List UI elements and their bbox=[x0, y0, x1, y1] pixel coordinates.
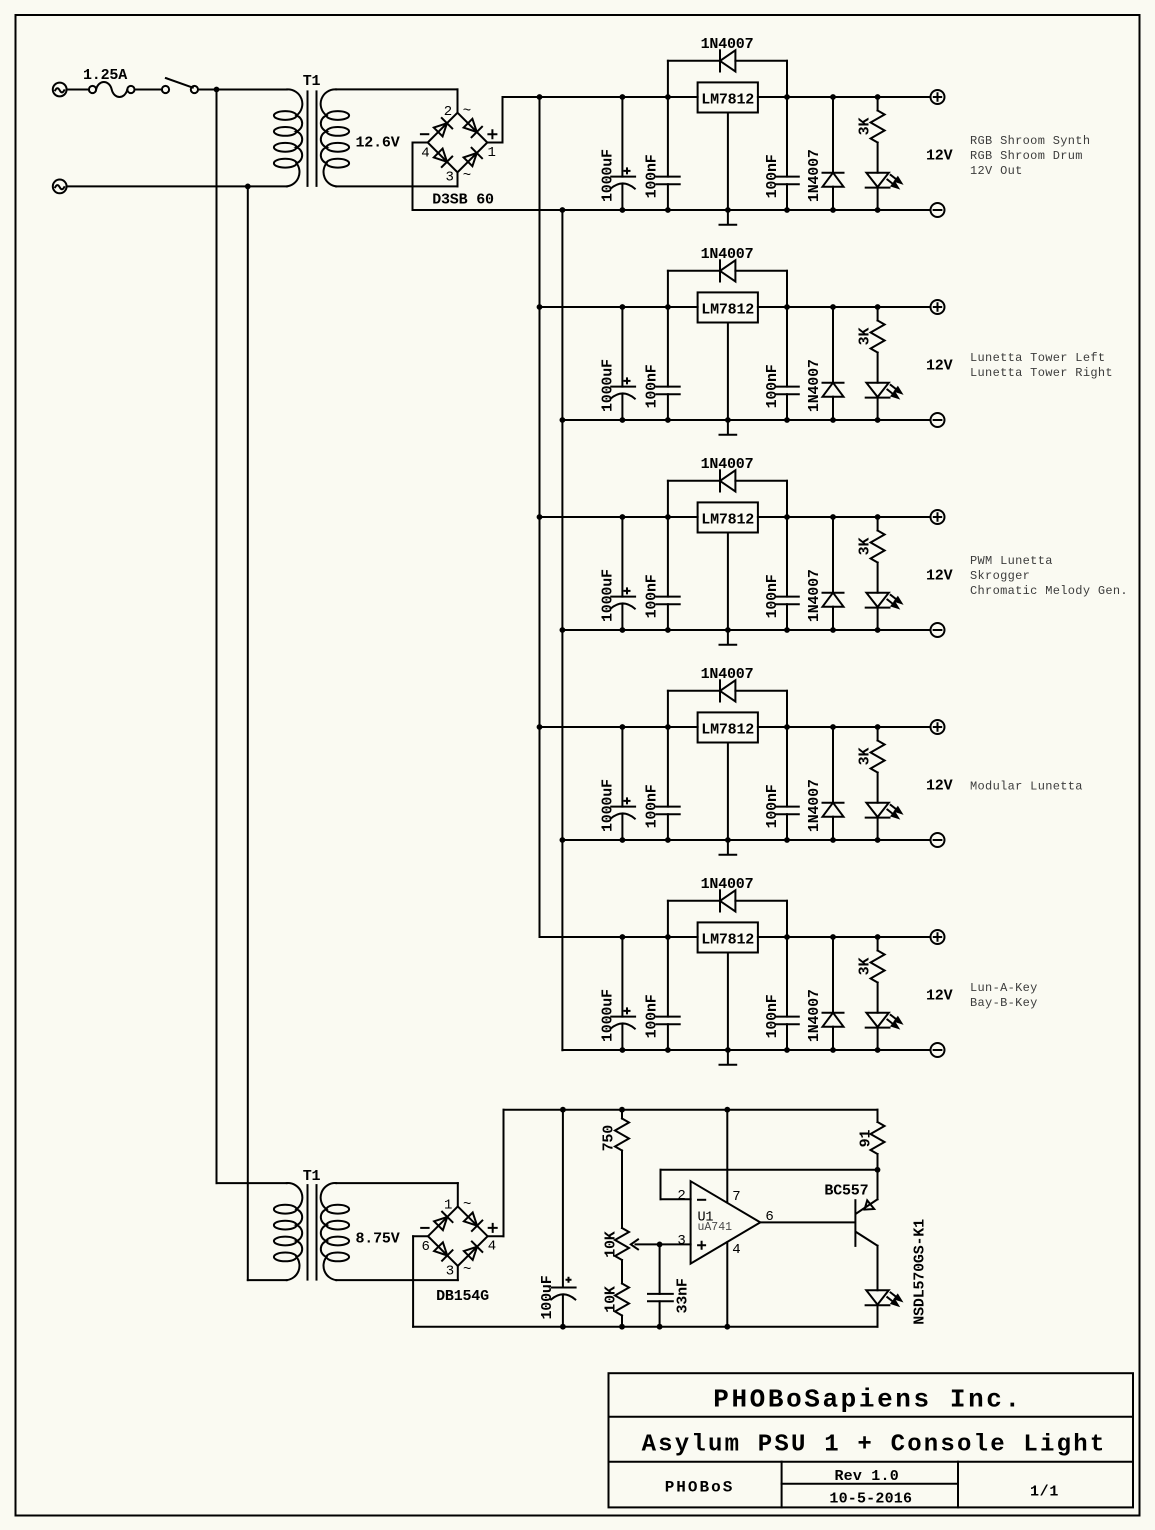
svg-text:NSDL570GS-K1: NSDL570GS-K1 bbox=[911, 1219, 928, 1325]
svg-text:Lunetta Tower Left: Lunetta Tower Left bbox=[970, 351, 1105, 365]
regulator LM7812 (block 5) bbox=[698, 922, 758, 952]
node regulator ground (block 1) bbox=[725, 207, 731, 213]
svg-text:1: 1 bbox=[487, 145, 495, 161]
svg-text:750: 750 bbox=[601, 1125, 618, 1152]
wire +12V rail (block 3) bbox=[540, 516, 698, 518]
svg-text:12V: 12V bbox=[926, 568, 953, 585]
LED indicator (block 3) bbox=[866, 593, 902, 630]
node 100nF-out top (block 4) bbox=[784, 724, 790, 730]
node 100nF-in top (block 2) bbox=[665, 304, 671, 310]
wire +12V rail right (block 2) bbox=[758, 306, 931, 308]
node: neutral feed junction bbox=[245, 184, 251, 190]
svg-text:1N4007: 1N4007 bbox=[701, 876, 754, 893]
svg-text:D3SB 60: D3SB 60 bbox=[432, 191, 494, 208]
wire +12V rail (block 4) bbox=[540, 726, 698, 728]
diode 1N4007 shunt (block 3) bbox=[823, 517, 844, 630]
output description labels (block 4) bbox=[970, 780, 1083, 794]
svg-text:LM7812: LM7812 bbox=[701, 91, 754, 108]
node 3K top (block 4) bbox=[875, 724, 881, 730]
ground symbol (block 2) bbox=[720, 323, 737, 435]
resistor 3K (block 5) bbox=[871, 937, 885, 1013]
output description labels (block 3) bbox=[970, 554, 1128, 598]
node LED bottom (block 4) bbox=[875, 837, 881, 843]
node 100nF-out bottom (block 1) bbox=[784, 207, 790, 213]
svg-text:~: ~ bbox=[463, 1262, 471, 1278]
node shunt diode top (block 5) bbox=[830, 934, 836, 940]
terminal + output (block 4) bbox=[931, 720, 945, 734]
diode 1N4007 bypass over regulator (block 2) bbox=[668, 260, 787, 307]
svg-text:3K: 3K bbox=[856, 748, 873, 766]
wire +12V rail right (block 1) bbox=[758, 96, 931, 98]
resistor 91 bbox=[871, 1110, 885, 1170]
svg-text:100nF: 100nF bbox=[644, 784, 661, 828]
transformer T1 core bbox=[308, 1185, 317, 1280]
diode 1N4007 bypass over regulator (block 5) bbox=[668, 890, 787, 937]
node 1000uF top (block 3) bbox=[620, 514, 626, 520]
svg-text:RGB Shroom Drum: RGB Shroom Drum bbox=[970, 149, 1083, 163]
node 100nF-out top (block 1) bbox=[784, 94, 790, 100]
node 1000uF bottom (block 4) bbox=[620, 837, 626, 843]
node 3K top (block 5) bbox=[875, 934, 881, 940]
ground symbol (block 3) bbox=[720, 533, 737, 645]
node shunt diode top (block 3) bbox=[830, 514, 836, 520]
node 100nF-in bottom (block 1) bbox=[665, 207, 671, 213]
node 100nF-in top (block 5) bbox=[665, 934, 671, 940]
wire inverting input bbox=[661, 1198, 691, 1200]
svg-text:T1: T1 bbox=[303, 73, 321, 90]
bridge rectifier DB154G bbox=[421, 1197, 497, 1279]
svg-text:3K: 3K bbox=[856, 328, 873, 346]
bridge rectifier D3SB 60 bbox=[421, 103, 497, 185]
node 100uF bottom bbox=[560, 1324, 566, 1330]
node 100nF-in top (block 1) bbox=[665, 94, 671, 100]
svg-text:1N4007: 1N4007 bbox=[806, 779, 823, 832]
node: live feed junction bbox=[214, 87, 220, 93]
svg-text:10K: 10K bbox=[603, 1231, 620, 1258]
diode 1N4007 shunt (block 1) bbox=[823, 97, 844, 210]
node 1000uF top (block 2) bbox=[620, 304, 626, 310]
wire +12V rail (block 1) bbox=[503, 96, 698, 98]
transformer T1 secondary winding bbox=[321, 1183, 349, 1280]
AC source terminal bottom bbox=[53, 180, 67, 194]
node 100nF-out bottom (block 2) bbox=[784, 417, 790, 423]
node 1000uF bottom (block 5) bbox=[620, 1047, 626, 1053]
node shunt diode bottom (block 4) bbox=[830, 837, 836, 843]
svg-text:3: 3 bbox=[445, 170, 453, 186]
switch SW1 bbox=[162, 78, 198, 93]
wire bridge - down to console return rail bbox=[413, 1236, 428, 1327]
svg-text:3: 3 bbox=[446, 1263, 454, 1279]
node wiper/33nF bbox=[657, 1242, 663, 1248]
LED indicator (block 5) bbox=[866, 1013, 902, 1050]
terminal - output (block 4) bbox=[931, 833, 945, 847]
node feedback/emitter/91 bbox=[875, 1167, 881, 1173]
node shunt diode bottom (block 2) bbox=[830, 417, 836, 423]
wire +12V rail (block 5) bbox=[540, 936, 698, 938]
wire 0V return rail (block 5) bbox=[562, 1049, 930, 1051]
op-amp U1 uA741 bbox=[691, 1181, 761, 1263]
svg-text:4: 4 bbox=[421, 145, 429, 161]
wire op-amp V+ pin 7 bbox=[726, 1110, 728, 1203]
svg-text:Skrogger: Skrogger bbox=[970, 569, 1030, 583]
svg-text:7: 7 bbox=[732, 1189, 740, 1205]
capacitor 1000uF (block 4) bbox=[611, 727, 636, 840]
capacitor 100nF input (block 5) bbox=[656, 937, 679, 1050]
ground symbol (block 5) bbox=[720, 953, 737, 1065]
wire bridge + up to console rail bbox=[488, 1110, 504, 1237]
transistor BC557 bbox=[855, 1170, 877, 1291]
wire feedback loop bbox=[661, 1170, 878, 1199]
node +feed (block 2) bbox=[537, 304, 543, 310]
wire: live feed down to second transformer bbox=[217, 90, 287, 1184]
transformer T1 primary winding bbox=[274, 1183, 302, 1280]
node 100uF top bbox=[560, 1107, 566, 1113]
svg-text:2: 2 bbox=[444, 104, 452, 120]
wire op-amp V- pin 4 bbox=[726, 1242, 728, 1327]
svg-text:12V: 12V bbox=[926, 988, 953, 1005]
svg-text:100nF: 100nF bbox=[764, 154, 781, 198]
wire: neutral feed down to second transformer bbox=[248, 186, 287, 1280]
svg-text:~: ~ bbox=[463, 168, 471, 184]
wire bridge + output up to rail 1 bbox=[487, 97, 502, 143]
svg-text:2: 2 bbox=[677, 1188, 685, 1204]
wire bridge - output down to rail 1 return bbox=[413, 143, 428, 211]
svg-text:12V: 12V bbox=[926, 358, 953, 375]
wire AC bottom to transformer primary bbox=[67, 185, 287, 187]
wire secondary top to bridge bbox=[336, 89, 457, 112]
svg-text:1000uF: 1000uF bbox=[600, 569, 617, 622]
node 1000uF bottom (block 3) bbox=[620, 627, 626, 633]
wire console return rail bbox=[413, 1326, 877, 1328]
wire console + rail bbox=[504, 1109, 878, 1111]
svg-text:3K: 3K bbox=[856, 118, 873, 136]
node shunt diode bottom (block 3) bbox=[830, 627, 836, 633]
node 3K top (block 1) bbox=[875, 94, 881, 100]
LED indicator (block 1) bbox=[866, 173, 902, 210]
terminal - output (block 3) bbox=[931, 623, 945, 637]
svg-text:100nF: 100nF bbox=[764, 784, 781, 828]
capacitor 1000uF (block 1) bbox=[611, 97, 636, 210]
diode 1N4007 shunt (block 5) bbox=[823, 937, 844, 1050]
svg-text:3: 3 bbox=[677, 1233, 685, 1249]
svg-text:1N4007: 1N4007 bbox=[701, 246, 754, 263]
node 100nF-out bottom (block 5) bbox=[784, 1047, 790, 1053]
node 100nF-in bottom (block 3) bbox=[665, 627, 671, 633]
svg-text:100nF: 100nF bbox=[764, 574, 781, 618]
svg-text:4: 4 bbox=[732, 1242, 740, 1258]
node 100nF-in bottom (block 5) bbox=[665, 1047, 671, 1053]
diode 1N4007 bypass over regulator (block 3) bbox=[668, 470, 787, 517]
LED indicator (block 4) bbox=[866, 803, 902, 840]
capacitor 100nF output (block 1) bbox=[776, 97, 799, 210]
diode 1N4007 shunt (block 2) bbox=[823, 307, 844, 420]
svg-text:LM7812: LM7812 bbox=[701, 931, 754, 948]
svg-text:100nF: 100nF bbox=[644, 154, 661, 198]
terminal - output (block 5) bbox=[931, 1043, 945, 1057]
output description labels (block 5) bbox=[970, 981, 1038, 1010]
wire +12V rail right (block 3) bbox=[758, 516, 931, 518]
node +feed (block 4) bbox=[537, 724, 543, 730]
diode 1N4007 shunt (block 4) bbox=[823, 727, 844, 840]
node LED bottom (block 2) bbox=[875, 417, 881, 423]
resistor 3K (block 1) bbox=[871, 97, 885, 173]
svg-text:DB154G: DB154G bbox=[436, 1288, 489, 1305]
node shunt diode top (block 1) bbox=[830, 94, 836, 100]
svg-text:100nF: 100nF bbox=[764, 364, 781, 408]
wire 0V return rail (block 3) bbox=[562, 629, 930, 631]
resistor 750 bbox=[615, 1110, 629, 1228]
wire secondary bottom to bridge bbox=[336, 172, 457, 186]
node 3K top (block 3) bbox=[875, 514, 881, 520]
node 1000uF top (block 1) bbox=[620, 94, 626, 100]
terminal + output (block 5) bbox=[931, 930, 945, 944]
node 3K top (block 2) bbox=[875, 304, 881, 310]
node 100nF-out top (block 5) bbox=[784, 934, 790, 940]
svg-text:1N4007: 1N4007 bbox=[806, 989, 823, 1042]
svg-text:PWM Lunetta: PWM Lunetta bbox=[970, 554, 1053, 568]
wire switch to transformer primary bbox=[198, 89, 287, 91]
terminal + output (block 3) bbox=[931, 510, 945, 524]
svg-text:100nF: 100nF bbox=[644, 994, 661, 1038]
svg-text:12V Out: 12V Out bbox=[970, 164, 1023, 178]
node 1000uF bottom (block 2) bbox=[620, 417, 626, 423]
node 10K bottom bbox=[619, 1324, 625, 1330]
ground symbol (block 4) bbox=[720, 743, 737, 855]
wire AC top to fuse bbox=[67, 89, 89, 91]
capacitor 33nF bbox=[648, 1244, 673, 1326]
svg-text:T1: T1 bbox=[303, 1168, 321, 1185]
svg-text:Rev 1.0: Rev 1.0 bbox=[834, 1468, 898, 1485]
svg-text:Lunetta Tower Right: Lunetta Tower Right bbox=[970, 366, 1113, 380]
wire secondary top to bridge (bottom) bbox=[336, 1183, 458, 1206]
svg-text:Modular Lunetta: Modular Lunetta bbox=[970, 780, 1083, 794]
svg-text:6: 6 bbox=[421, 1239, 429, 1255]
svg-text:PHOBoSapiens Inc.: PHOBoSapiens Inc. bbox=[713, 1385, 1022, 1415]
node -feed (block 1) bbox=[560, 207, 566, 213]
terminal - output (block 1) bbox=[931, 203, 945, 217]
capacitor 100uF bbox=[551, 1110, 576, 1327]
potentiometer 10K bbox=[615, 1228, 691, 1260]
resistor 3K (block 4) bbox=[871, 727, 885, 803]
resistor 10K lower bbox=[615, 1260, 629, 1327]
node shunt diode bottom (block 1) bbox=[830, 207, 836, 213]
node +feed (block 3) bbox=[537, 514, 543, 520]
capacitor 100nF output (block 4) bbox=[776, 727, 799, 840]
svg-text:12V: 12V bbox=[926, 148, 953, 165]
node regulator ground (block 2) bbox=[725, 417, 731, 423]
node shunt diode bottom (block 5) bbox=[830, 1047, 836, 1053]
wire secondary bottom to bridge (bottom) bbox=[336, 1266, 458, 1280]
transformer T1 core bbox=[308, 91, 317, 185]
wire +12V rail right (block 4) bbox=[758, 726, 931, 728]
svg-text:1N4007: 1N4007 bbox=[806, 569, 823, 622]
svg-text:PHOBoS: PHOBoS bbox=[665, 1478, 735, 1496]
transformer T1 primary winding bbox=[274, 89, 302, 186]
svg-text:1: 1 bbox=[444, 1198, 452, 1214]
svg-text:LM7812: LM7812 bbox=[701, 301, 754, 318]
node pin7 rail bbox=[724, 1107, 730, 1113]
svg-text:33nF: 33nF bbox=[675, 1278, 692, 1313]
svg-text:3K: 3K bbox=[856, 958, 873, 976]
resistor 3K (block 2) bbox=[871, 307, 885, 383]
node 33nF bottom bbox=[657, 1324, 663, 1330]
regulator LM7812 (block 1) bbox=[698, 82, 758, 112]
wire fuse to switch bbox=[135, 89, 162, 91]
terminal + output (block 1) bbox=[931, 90, 945, 104]
node LED bottom (block 5) bbox=[875, 1047, 881, 1053]
node regulator ground (block 3) bbox=[725, 627, 731, 633]
capacitor 100nF output (block 3) bbox=[776, 517, 799, 630]
node regulator ground (block 5) bbox=[725, 1047, 731, 1053]
capacitor 100nF output (block 5) bbox=[776, 937, 799, 1050]
node 100nF-out top (block 3) bbox=[784, 514, 790, 520]
wire 0V return rail (block 4) bbox=[562, 839, 930, 841]
capacitor 100nF input (block 4) bbox=[656, 727, 679, 840]
title block frame bbox=[609, 1373, 1134, 1507]
node -feed (block 4) bbox=[560, 837, 566, 843]
regulator LM7812 (block 3) bbox=[698, 502, 758, 532]
node regulator ground (block 4) bbox=[725, 837, 731, 843]
capacitor 100nF input (block 1) bbox=[656, 97, 679, 210]
LED NSDL570GS-K1 bbox=[866, 1290, 902, 1326]
svg-text:1.25A: 1.25A bbox=[83, 67, 127, 84]
regulator LM7812 (block 4) bbox=[698, 712, 758, 742]
resistor 3K (block 3) bbox=[871, 517, 885, 593]
LED indicator (block 2) bbox=[866, 383, 902, 420]
capacitor 100nF input (block 3) bbox=[656, 517, 679, 630]
node LED bottom (block 3) bbox=[875, 627, 881, 633]
diode 1N4007 bypass over regulator (block 1) bbox=[668, 50, 787, 97]
node 750 top bbox=[619, 1107, 625, 1113]
svg-text:LM7812: LM7812 bbox=[701, 511, 754, 528]
svg-text:100nF: 100nF bbox=[764, 994, 781, 1038]
output description labels (block 2) bbox=[970, 351, 1113, 380]
node shunt diode top (block 2) bbox=[830, 304, 836, 310]
wire +12V rail (block 2) bbox=[540, 306, 698, 308]
node 100nF-out bottom (block 3) bbox=[784, 627, 790, 633]
svg-text:1N4007: 1N4007 bbox=[806, 359, 823, 412]
capacitor 1000uF (block 2) bbox=[611, 307, 636, 420]
wire: -feed bus down the regulator blocks bbox=[561, 210, 563, 1050]
wire 0V return rail (block 2) bbox=[562, 419, 930, 421]
capacitor 100nF input (block 2) bbox=[656, 307, 679, 420]
node 100nF-in top (block 3) bbox=[665, 514, 671, 520]
capacitor 1000uF (block 3) bbox=[611, 517, 636, 630]
svg-text:10-5-2016: 10-5-2016 bbox=[829, 1491, 912, 1508]
node 100nF-out top (block 2) bbox=[784, 304, 790, 310]
svg-text:1N4007: 1N4007 bbox=[701, 456, 754, 473]
node 100nF-in bottom (block 4) bbox=[665, 837, 671, 843]
terminal - output (block 2) bbox=[931, 413, 945, 427]
svg-text:100nF: 100nF bbox=[644, 364, 661, 408]
node 1000uF top (block 5) bbox=[620, 934, 626, 940]
svg-text:4: 4 bbox=[488, 1239, 496, 1255]
node 100nF-out bottom (block 4) bbox=[784, 837, 790, 843]
wire: +feed bus down the regulator blocks bbox=[539, 97, 541, 937]
diode 1N4007 bypass over regulator (block 4) bbox=[668, 680, 787, 727]
svg-text:RGB Shroom Synth: RGB Shroom Synth bbox=[970, 134, 1090, 148]
node 100nF-in top (block 4) bbox=[665, 724, 671, 730]
svg-text:1N4007: 1N4007 bbox=[701, 666, 754, 683]
svg-text:LM7812: LM7812 bbox=[701, 721, 754, 738]
AC source terminal top bbox=[53, 83, 67, 97]
node -feed (block 3) bbox=[560, 627, 566, 633]
svg-text:1/1: 1/1 bbox=[1030, 1484, 1059, 1501]
regulator LM7812 (block 2) bbox=[698, 292, 758, 322]
svg-text:100nF: 100nF bbox=[644, 574, 661, 618]
transformer T1 secondary winding bbox=[321, 89, 349, 186]
svg-text:1000uF: 1000uF bbox=[600, 989, 617, 1042]
output description labels (block 1) bbox=[970, 134, 1090, 178]
svg-text:BC557: BC557 bbox=[824, 1183, 868, 1200]
wire op-amp output to transistor base bbox=[760, 1221, 854, 1223]
svg-text:12V: 12V bbox=[926, 778, 953, 795]
svg-text:Lun-A-Key: Lun-A-Key bbox=[970, 981, 1038, 995]
fuse 1.25A bbox=[89, 82, 135, 97]
node LED bottom (block 1) bbox=[875, 207, 881, 213]
svg-text:91: 91 bbox=[857, 1130, 874, 1148]
svg-text:100uF: 100uF bbox=[539, 1275, 556, 1319]
svg-text:1000uF: 1000uF bbox=[600, 359, 617, 412]
svg-text:12.6V: 12.6V bbox=[355, 135, 399, 152]
node 1000uF top (block 4) bbox=[620, 724, 626, 730]
svg-text:1000uF: 1000uF bbox=[600, 779, 617, 832]
node -feed (block 2) bbox=[560, 417, 566, 423]
svg-text:1000uF: 1000uF bbox=[600, 149, 617, 202]
svg-text:Bay-B-Key: Bay-B-Key bbox=[970, 996, 1038, 1010]
svg-text:Asylum PSU 1 + Console Light: Asylum PSU 1 + Console Light bbox=[642, 1431, 1107, 1458]
wire 0V return rail (block 1) bbox=[413, 209, 931, 211]
terminal + output (block 2) bbox=[931, 300, 945, 314]
node 1000uF bottom (block 1) bbox=[620, 207, 626, 213]
svg-text:3K: 3K bbox=[856, 538, 873, 556]
svg-text:~: ~ bbox=[463, 1197, 471, 1213]
svg-text:10K: 10K bbox=[603, 1286, 620, 1313]
svg-text:1N4007: 1N4007 bbox=[701, 36, 754, 53]
svg-text:uA741: uA741 bbox=[698, 1221, 733, 1234]
capacitor 1000uF (block 5) bbox=[611, 937, 636, 1050]
capacitor 100nF output (block 2) bbox=[776, 307, 799, 420]
svg-text:1N4007: 1N4007 bbox=[806, 149, 823, 202]
node +feed (block 1) bbox=[537, 94, 543, 100]
node 100nF-in bottom (block 2) bbox=[665, 417, 671, 423]
svg-text:~: ~ bbox=[463, 103, 471, 119]
node pin4 return bbox=[724, 1324, 730, 1330]
ground symbol (block 1) bbox=[720, 113, 737, 225]
node shunt diode top (block 4) bbox=[830, 724, 836, 730]
wire +12V rail right (block 5) bbox=[758, 936, 931, 938]
svg-text:Chromatic Melody Gen.: Chromatic Melody Gen. bbox=[970, 584, 1128, 598]
svg-text:8.75V: 8.75V bbox=[355, 1231, 399, 1248]
